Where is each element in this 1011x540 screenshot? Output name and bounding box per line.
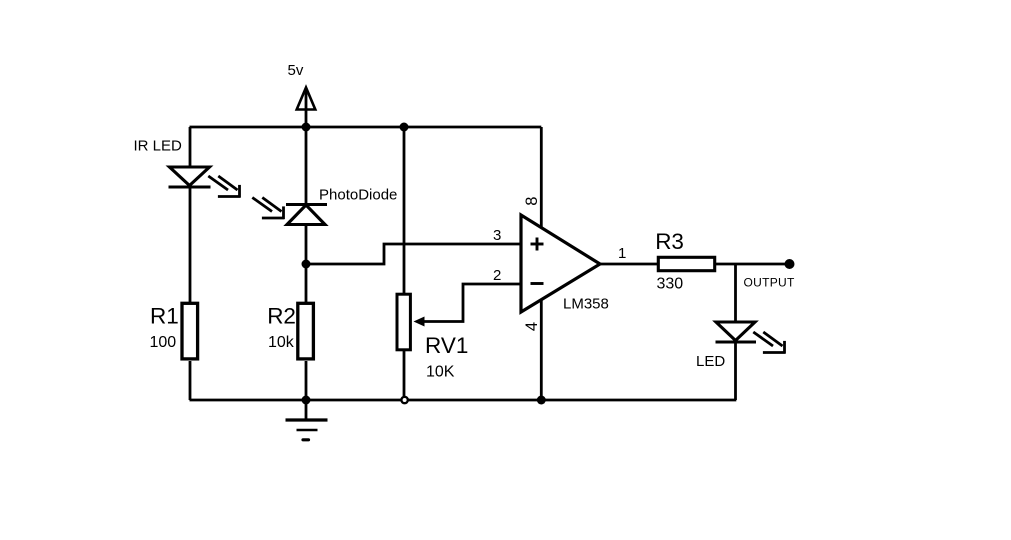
svg-text:OUTPUT: OUTPUT: [744, 276, 795, 290]
svg-text:R1: R1: [150, 304, 179, 329]
resistor R1: [182, 303, 198, 359]
junction node A: [302, 260, 311, 269]
svg-text:PhotoDiode: PhotoDiode: [319, 187, 397, 204]
wire IR LED anode: [189, 127, 192, 168]
wire rail to RV1: [403, 127, 406, 293]
op-amp minus input marker: [531, 282, 544, 285]
wire IR LED cathode to R1: [189, 187, 192, 302]
resistor R2: [298, 303, 314, 359]
svg-text:IR LED: IR LED: [134, 138, 183, 155]
svg-text:1: 1: [618, 245, 626, 262]
wire photodiode anode to R2: [305, 225, 308, 303]
node OUTPUT terminal: [785, 259, 795, 269]
wire R2 to ground rail: [305, 361, 308, 400]
wire top rail: [190, 126, 542, 129]
wire op-amp -in to RV1 wiper: [420, 284, 521, 322]
junction ground node: [302, 396, 311, 405]
wire R1 to ground rail: [189, 361, 192, 400]
ground: [286, 400, 328, 440]
potentiometer RV1: [397, 294, 410, 350]
wire photodiode cathode: [305, 127, 308, 204]
svg-text:330: 330: [657, 276, 684, 293]
svg-text:100: 100: [150, 334, 177, 351]
power 5v symbol: [297, 88, 316, 128]
junction rail-RV1: [400, 123, 409, 132]
wire R3 to output: [716, 263, 786, 266]
wire RV1 to ground rail: [403, 351, 406, 400]
resistor R3: [658, 257, 714, 270]
svg-text:5v: 5v: [288, 62, 304, 79]
wire output tee to LED: [734, 264, 737, 322]
photodiode D2: [252, 198, 327, 225]
op-amp plus input marker: [531, 238, 544, 251]
IR LED D1: [169, 167, 241, 198]
wire pin4 to ground rail: [540, 296, 543, 400]
svg-text:10K: 10K: [426, 364, 455, 381]
junction RV1-ground open node: [401, 397, 407, 403]
wire LED cathode to ground rail: [734, 342, 737, 400]
LED D3: [716, 322, 786, 354]
svg-text:RV1: RV1: [425, 333, 468, 358]
svg-text:2: 2: [493, 267, 501, 284]
svg-text:4: 4: [523, 322, 541, 331]
svg-text:LM358: LM358: [563, 296, 609, 313]
svg-text:10k: 10k: [268, 334, 295, 351]
op-amp U1: [521, 215, 600, 312]
RV1 wiper arrowhead: [414, 317, 425, 327]
wire bottom rail: [190, 399, 737, 402]
wire node A to op-amp +in: [306, 244, 521, 264]
svg-text:LED: LED: [696, 353, 725, 370]
wire op-amp out to R3: [600, 263, 657, 266]
svg-text:R3: R3: [655, 229, 684, 254]
svg-text:R2: R2: [267, 304, 296, 329]
svg-text:3: 3: [493, 227, 501, 244]
junction rail-photodiode: [302, 123, 311, 132]
junction pin4-ground: [537, 396, 546, 405]
wire pin8 to rail: [540, 127, 543, 232]
svg-text:8: 8: [523, 197, 541, 206]
